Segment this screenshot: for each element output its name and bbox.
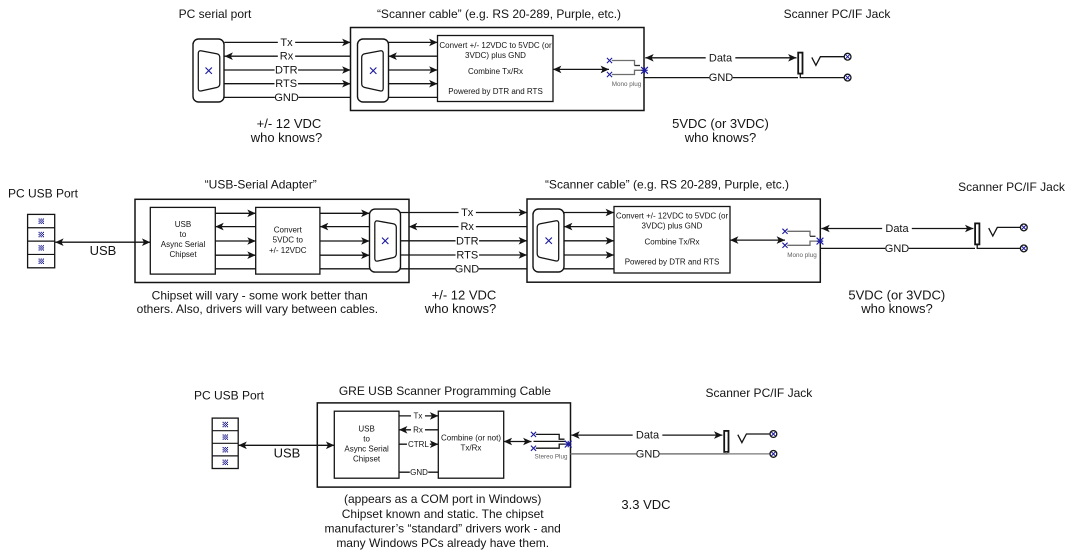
- wire USB (row 3, bidirectional): [238, 444, 334, 446]
- svg-text:CTRL: CTRL: [408, 440, 429, 449]
- svg-text:Rx: Rx: [280, 51, 294, 63]
- wire RTS (row 2): [401, 254, 528, 256]
- svg-text:USB: USB: [175, 220, 191, 229]
- svg-text:(appears as a COM port in Wind: (appears as a COM port in Windows): [344, 492, 541, 506]
- wire Tx (row 3, chipset to combiner): [399, 415, 438, 417]
- svg-text:Powered by DTR and RTS: Powered by DTR and RTS: [448, 87, 543, 96]
- svg-text:GND: GND: [455, 263, 480, 275]
- svg-text:to: to: [363, 435, 370, 444]
- wire CTRL (row 3): [399, 443, 438, 445]
- svg-text:others. Also, drivers will var: others. Also, drivers will vary between …: [137, 302, 378, 316]
- svg-text:+/- 12VDC: +/- 12VDC: [269, 246, 307, 255]
- svg-text:GND: GND: [636, 448, 661, 460]
- block U3: Convert 5VDC to +/- 12VDC: [256, 207, 320, 274]
- wire Tx internal (row 1, DB9 to converter): [389, 41, 438, 43]
- wire converter-DB9 4 (row 2): [320, 254, 370, 256]
- box: GRE USB Scanner Programming Cable: [317, 403, 570, 487]
- svg-text:who knows?: who knows?: [684, 130, 757, 145]
- svg-text:Tx: Tx: [414, 411, 423, 420]
- wire GND internal (row 1): [389, 96, 438, 98]
- connector J3: Scanner PC/IF jack (row 1): [798, 53, 851, 81]
- svg-text:Convert: Convert: [274, 226, 303, 235]
- connector P1: Mono plug (row 1): [607, 58, 648, 88]
- svg-text:Scanner PC/IF Jack: Scanner PC/IF Jack: [958, 180, 1066, 194]
- svg-text:GND: GND: [274, 92, 299, 104]
- svg-text:Data: Data: [636, 430, 660, 442]
- svg-text:5VDC to: 5VDC to: [273, 236, 304, 245]
- svg-text:“USB-Serial Adapter”: “USB-Serial Adapter”: [205, 177, 317, 191]
- svg-text:Mono plug: Mono plug: [787, 252, 817, 259]
- block U1: converter text box (row 1): [438, 36, 554, 102]
- wire: converter to mono plug (row 2, bidirectional): [730, 239, 785, 241]
- svg-text:GND: GND: [709, 72, 734, 84]
- wire Rx (row 1): [225, 55, 351, 57]
- box: Scanner cable (row 1): [351, 28, 645, 111]
- svg-text:many Windows PCs already have: many Windows PCs already have them.: [336, 536, 549, 550]
- block U4: converter text box (row 2): [614, 207, 730, 274]
- wire GND (row 2): [401, 268, 528, 270]
- wire converter-DB9 1 (row 2): [320, 212, 370, 214]
- box: USB-Serial Adapter: [135, 199, 409, 282]
- wire Tx (row 1, serial port to scanner cable): [225, 41, 351, 43]
- svg-text:USB: USB: [274, 445, 301, 460]
- wire GND (row 2, scanner cable to jack): [820, 247, 975, 249]
- wire DTR internal (row 1): [389, 69, 438, 71]
- svg-text:who knows?: who knows?: [860, 301, 933, 316]
- svg-text:“Scanner cable” (e.g. RS 20-28: “Scanner cable” (e.g. RS 20-289, Purple,…: [545, 177, 789, 191]
- svg-text:Data: Data: [885, 223, 909, 235]
- wire USB (row 2, bidirectional): [55, 241, 150, 243]
- wire chipset-converter 4 (row 2): [215, 254, 255, 256]
- svg-text:3VDC) plus GND: 3VDC) plus GND: [465, 51, 526, 60]
- wire Data (row 3, cable to jack): [571, 434, 722, 436]
- svg-text:PC USB Port: PC USB Port: [194, 389, 265, 403]
- svg-text:GND: GND: [885, 243, 910, 255]
- svg-text:Combine Tx/Rx: Combine Tx/Rx: [468, 67, 523, 76]
- svg-text:Tx: Tx: [461, 207, 474, 219]
- svg-text:Chipset known and static. The: Chipset known and static. The chipset: [342, 507, 545, 521]
- svg-text:Scanner PC/IF Jack: Scanner PC/IF Jack: [784, 7, 892, 21]
- wire chipset-converter 3 (row 2): [215, 240, 255, 242]
- svg-text:3VDC) plus GND: 3VDC) plus GND: [642, 222, 703, 231]
- svg-text:who knows?: who knows?: [250, 130, 323, 145]
- svg-text:Chipset: Chipset: [353, 455, 381, 464]
- svg-text:Scanner PC/IF Jack: Scanner PC/IF Jack: [706, 386, 814, 400]
- wire Rx (row 3): [399, 429, 438, 431]
- wire RTS (row 1): [225, 83, 351, 85]
- wire chipset-converter GND (row 2): [215, 268, 255, 270]
- wire converter-DB9 3 (row 2): [320, 240, 370, 242]
- wire DTR (row 2): [401, 240, 528, 242]
- svg-text:GND: GND: [410, 468, 428, 477]
- wire Tx (row 2, adapter to scanner cable): [401, 212, 528, 214]
- svg-text:Async Serial: Async Serial: [161, 240, 206, 249]
- wire Rx internal (row 2): [564, 226, 614, 228]
- svg-text:RTS: RTS: [456, 250, 478, 262]
- svg-text:Tx: Tx: [280, 37, 293, 49]
- svg-text:“Scanner cable” (e.g. RS 20-28: “Scanner cable” (e.g. RS 20-289, Purple,…: [377, 7, 621, 21]
- svg-text:who knows?: who knows?: [424, 301, 497, 316]
- wire: combiner to stereo plug (row 3, bidirectional): [504, 441, 532, 443]
- wire Data (row 1, scanner cable to jack): [645, 57, 796, 59]
- svg-text:Stereo Plug: Stereo Plug: [535, 453, 568, 460]
- connector J1: PC serial port DB9: [193, 39, 224, 102]
- svg-text:Chipset will vary - some work: Chipset will vary - some work better tha…: [152, 288, 368, 302]
- wire chipset-converter 1 (row 2): [215, 212, 255, 214]
- connector P2: Mono plug (row 2): [782, 229, 823, 259]
- svg-text:Rx: Rx: [413, 425, 423, 434]
- block U2: USB to Async Serial Chipset (row 2): [150, 207, 215, 274]
- svg-text:5VDC (or 3VDC): 5VDC (or 3VDC): [672, 116, 769, 131]
- svg-text:Convert +/- 12VDC to 5VDC (or: Convert +/- 12VDC to 5VDC (or: [616, 212, 729, 221]
- wire Rx (row 2): [409, 226, 527, 228]
- svg-text:Rx: Rx: [460, 221, 474, 233]
- svg-text:DTR: DTR: [275, 65, 298, 77]
- wire Tx internal (row 2): [564, 212, 614, 214]
- svg-text:DTR: DTR: [456, 235, 479, 247]
- svg-text:to: to: [180, 230, 187, 239]
- wire converter-DB9 2 (row 2): [320, 226, 370, 228]
- svg-text:Data: Data: [709, 52, 733, 64]
- svg-text:Mono plug: Mono plug: [612, 81, 642, 88]
- wire RTS internal (row 2): [564, 254, 614, 256]
- wire GND (row 3, chipset to combiner): [399, 471, 438, 473]
- wire: converter to mono plug (row 1, bidirectional): [553, 68, 609, 70]
- svg-text:PC USB Port: PC USB Port: [8, 186, 79, 200]
- svg-text:3.3 VDC: 3.3 VDC: [621, 497, 670, 512]
- wire GND (row 1): [225, 96, 351, 98]
- connector J2: scanner cable DB9 (row 1): [358, 39, 389, 102]
- wire Data (row 2, scanner cable to jack): [821, 228, 973, 230]
- connector J4: PC USB port (row 2): [28, 214, 55, 267]
- wire converter-DB9 GND (row 2): [320, 268, 370, 270]
- wire GND internal (row 2): [564, 268, 614, 270]
- svg-text:Powered by DTR and RTS: Powered by DTR and RTS: [625, 258, 720, 267]
- wire GND (row 1, scanner cable to jack): [644, 77, 798, 79]
- wire GND (row 3, cable to jack): [571, 453, 728, 455]
- svg-text:PC serial port: PC serial port: [179, 7, 252, 21]
- svg-text:Async Serial: Async Serial: [344, 445, 389, 454]
- wire DTR internal (row 2): [564, 240, 614, 242]
- wire DTR (row 1): [225, 69, 351, 71]
- svg-text:GRE USB Scanner Programming Ca: GRE USB Scanner Programming Cable: [339, 384, 551, 398]
- svg-text:manufacturer’s “standard” driv: manufacturer’s “standard” drivers work -…: [325, 521, 561, 535]
- connector J9: Scanner PC/IF jack (row 3): [724, 431, 777, 458]
- connector J7: Scanner PC/IF jack (row 2): [975, 223, 1027, 251]
- connector J8: PC USB port (row 3): [212, 418, 238, 468]
- svg-text:+/- 12 VDC: +/- 12 VDC: [257, 116, 322, 131]
- svg-text:Combine (or not): Combine (or not): [441, 434, 501, 443]
- connector P3: Stereo plug (row 3): [531, 432, 572, 461]
- wire Rx internal (row 1): [389, 55, 438, 57]
- box: Scanner cable (row 2): [527, 199, 820, 282]
- svg-text:USB: USB: [358, 425, 374, 434]
- svg-text:Combine Tx/Rx: Combine Tx/Rx: [645, 238, 700, 247]
- svg-text:Tx/Rx: Tx/Rx: [461, 444, 482, 453]
- wire RTS internal (row 1): [389, 83, 438, 85]
- block U6: Combine (or not) Tx/Rx: [438, 411, 503, 478]
- svg-text:Convert +/- 12VDC to 5VDC (or: Convert +/- 12VDC to 5VDC (or: [439, 41, 552, 50]
- connector J6: scanner cable DB9 (row 2): [533, 209, 564, 272]
- svg-text:RTS: RTS: [275, 78, 297, 90]
- svg-text:USB: USB: [90, 243, 117, 258]
- wire chipset-converter 2 (row 2): [215, 226, 255, 228]
- connector J5: adapter DB9 (row 2): [370, 209, 401, 272]
- svg-text:Chipset: Chipset: [169, 250, 197, 259]
- block U5: USB to Async Serial Chipset (row 3): [334, 411, 399, 478]
